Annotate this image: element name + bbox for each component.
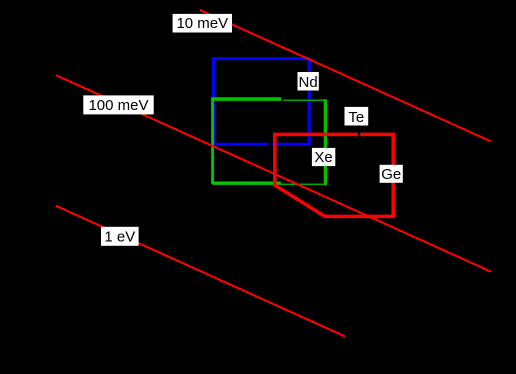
tick gap on blue bottom edge (black): [268, 141, 272, 149]
svg-text:100 meV: 100 meV: [88, 97, 148, 114]
label 100 meV: [83, 95, 153, 114]
svg-text:Ge: Ge: [381, 166, 401, 183]
label Ge: [380, 165, 403, 183]
svg-text:1 eV: 1 eV: [104, 228, 135, 245]
label Te: [345, 107, 369, 126]
rectangle Nd (blue): [213, 59, 309, 145]
polygon Ge (red): [275, 134, 393, 216]
line 10 meV (red diagonal): [200, 10, 491, 142]
label Xe: [312, 148, 335, 166]
tick below Te label (black): [358, 104, 360, 138]
rectangle Xe right edge thick (green): [324, 99, 327, 185]
rectangle Xe inner thick C-shape (green): [212, 99, 281, 183]
rectangle Xe outer thin (green): [213, 100, 325, 184]
label 1 eV: [101, 227, 139, 246]
label 10 meV: [173, 14, 232, 33]
svg-text:Te: Te: [348, 109, 364, 126]
svg-text:Xe: Xe: [314, 149, 332, 166]
line 100 meV (red diagonal): [56, 75, 491, 271]
svg-text:Nd: Nd: [299, 74, 318, 91]
svg-text:10 meV: 10 meV: [176, 15, 228, 32]
line 1 eV (red diagonal): [56, 206, 345, 337]
label Nd: [298, 72, 319, 91]
